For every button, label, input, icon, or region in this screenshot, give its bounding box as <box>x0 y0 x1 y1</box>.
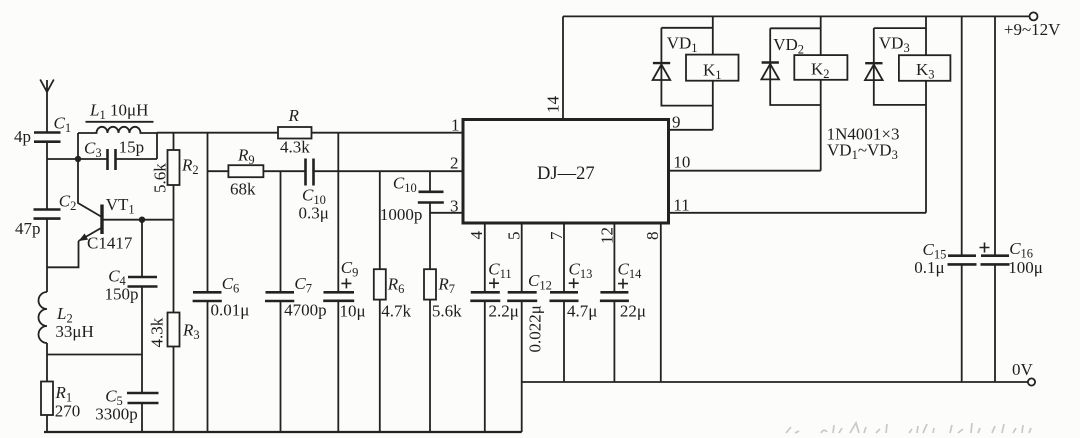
svg-text:C1417: C1417 <box>87 234 133 253</box>
node A (tank tap) <box>47 158 78 160</box>
svg-text:3: 3 <box>450 197 459 216</box>
svg-text:33μH: 33μH <box>55 322 93 341</box>
svg-text:10: 10 <box>673 153 690 172</box>
svg-text:R9: R9 <box>237 146 255 168</box>
svg-text:R2: R2 <box>181 156 199 178</box>
wire emitter net to C5 column <box>47 354 142 356</box>
relay K2 group wiring <box>770 16 821 170</box>
L1 label underline <box>86 121 154 123</box>
op-amp U1 DJ-27 IC box <box>463 120 669 224</box>
svg-text:0V: 0V <box>1012 360 1034 379</box>
svg-text:5.6k: 5.6k <box>151 163 170 193</box>
capacitor C5 <box>127 393 159 432</box>
wire pin2 net <box>208 170 464 172</box>
wire bottom ground rail <box>44 431 522 433</box>
capacitor C1 <box>34 133 61 142</box>
wire pin3 <box>430 212 463 214</box>
svg-text:15p: 15p <box>119 138 145 157</box>
svg-text:4.7k: 4.7k <box>381 302 411 321</box>
svg-text:C1: C1 <box>54 114 72 136</box>
svg-text:8: 8 <box>643 232 662 241</box>
resistor R <box>278 127 312 139</box>
svg-text:C12: C12 <box>528 271 552 293</box>
svg-text:VT1: VT1 <box>106 195 135 217</box>
svg-text:C10: C10 <box>393 174 417 196</box>
capacitor C7 <box>265 171 294 432</box>
relay K2 <box>794 55 847 80</box>
svg-text:47p: 47p <box>15 219 41 238</box>
diode VD1 <box>653 63 671 80</box>
wire pin 4 / capacitor C11 <box>470 223 500 432</box>
resistor R3 <box>168 220 180 432</box>
svg-text:DJ—27: DJ—27 <box>537 164 595 184</box>
svg-text:0.01μ: 0.01μ <box>211 301 250 320</box>
svg-text:1000p: 1000p <box>380 205 423 224</box>
terminal 0V <box>1028 378 1035 385</box>
antenna <box>40 80 54 133</box>
svg-text:7: 7 <box>547 231 566 240</box>
wire antenna column C1 to C2 <box>46 142 48 210</box>
inductor L2 <box>39 292 48 343</box>
relay K1 <box>686 55 739 81</box>
junction dot collector/C4 <box>139 217 145 223</box>
capacitor C16 <box>980 16 1010 382</box>
svg-text:VD1~VD3: VD1~VD3 <box>827 141 898 163</box>
capacitor C15 <box>948 16 977 382</box>
relay K1 group wiring <box>661 16 712 129</box>
svg-text:5.6k: 5.6k <box>432 302 462 321</box>
svg-text:1: 1 <box>451 116 460 135</box>
svg-text:C7: C7 <box>294 274 312 296</box>
svg-text:9: 9 <box>672 113 681 132</box>
wire L2 to R1 <box>46 343 48 382</box>
svg-text:VD2: VD2 <box>773 35 804 57</box>
svg-text:C9: C9 <box>341 258 359 280</box>
wire top supply rail <box>563 15 1030 17</box>
svg-text:68k: 68k <box>230 180 256 199</box>
relay K3 <box>899 55 951 81</box>
capacitor C2 <box>34 210 61 219</box>
svg-text:14: 14 <box>544 96 563 114</box>
svg-text:4.7μ: 4.7μ <box>567 302 597 321</box>
svg-text:4p: 4p <box>14 127 31 146</box>
wire pin 12 / capacitor C14 <box>600 223 629 382</box>
svg-text:C11: C11 <box>488 260 511 282</box>
svg-text:2.2μ: 2.2μ <box>489 302 519 321</box>
wire collector <box>102 219 174 221</box>
svg-text:C2: C2 <box>59 192 77 214</box>
wire 0V rail <box>522 381 1029 383</box>
capacitor C3 <box>78 149 157 170</box>
resistor R1 <box>41 382 53 416</box>
wire top rail pin1 net <box>157 132 463 134</box>
capacitor C9 <box>323 171 354 432</box>
wire pin 10 <box>669 170 821 172</box>
svg-text:0.022μ: 0.022μ <box>526 305 545 352</box>
transistor VT1 <box>47 159 102 267</box>
tank left vertical wire <box>77 133 79 159</box>
svg-text:100μ: 100μ <box>1008 258 1043 277</box>
capacitor C10 (1000p) <box>418 171 444 269</box>
svg-text:0.3μ: 0.3μ <box>299 204 329 223</box>
capacitor C6 <box>193 133 222 432</box>
svg-text:C13: C13 <box>569 260 593 282</box>
svg-text:270: 270 <box>55 402 80 421</box>
junction dot tank corner <box>75 156 81 162</box>
relay K3 group wiring <box>874 16 926 212</box>
svg-text:VD3: VD3 <box>879 34 910 56</box>
svg-text:C3: C3 <box>84 139 102 161</box>
watermark scribble <box>786 423 1031 433</box>
svg-text:22μ: 22μ <box>620 302 646 321</box>
diode VD3 <box>865 63 883 80</box>
tank right vertical wire <box>156 133 158 159</box>
resistor R7 <box>424 269 436 432</box>
svg-text:4.3k: 4.3k <box>148 317 167 347</box>
svg-text:4700p: 4700p <box>284 301 327 320</box>
svg-text:0.1μ: 0.1μ <box>914 258 944 277</box>
svg-text:11: 11 <box>673 196 689 215</box>
resistor R9 <box>228 165 263 177</box>
wire pin 8 <box>660 223 662 382</box>
svg-text:VD1: VD1 <box>667 34 698 56</box>
svg-text:2: 2 <box>450 154 459 173</box>
svg-text:R6: R6 <box>387 275 405 297</box>
inductor L1 <box>78 127 157 133</box>
resistor R2 <box>168 133 180 220</box>
svg-text:3300p: 3300p <box>95 405 138 424</box>
svg-text:4.3k: 4.3k <box>280 138 310 157</box>
diode VD2 <box>761 63 779 80</box>
wire C2 to L2 <box>46 219 48 292</box>
svg-text:4: 4 <box>467 231 486 240</box>
wire pin 14 column <box>562 16 564 119</box>
svg-text:10μ: 10μ <box>340 302 366 321</box>
svg-text:5: 5 <box>505 232 524 241</box>
resistor R6 <box>374 171 386 432</box>
wire pin 11 <box>669 212 927 214</box>
svg-text:R: R <box>288 106 300 125</box>
capacitor C10 (0.3u) <box>306 159 314 186</box>
wire R1 to bottom rail <box>46 415 48 432</box>
svg-text:L1 10μH: L1 10μH <box>89 101 148 123</box>
svg-text:12: 12 <box>598 227 617 244</box>
svg-text:R7: R7 <box>437 275 455 297</box>
wire pin 7 / capacitor C13 <box>550 223 579 382</box>
svg-text:R3: R3 <box>182 321 200 343</box>
svg-text:C14: C14 <box>618 260 643 282</box>
wire link pin1 to pin2 net <box>337 133 339 172</box>
wire pin 5 / capacitor C12 <box>507 223 537 432</box>
svg-text:+9~12V: +9~12V <box>1004 20 1061 39</box>
svg-text:150p: 150p <box>105 285 139 304</box>
terminal +9~12V <box>1030 12 1038 20</box>
wire pin 9 <box>669 129 713 131</box>
capacitor C4 <box>128 220 158 393</box>
svg-text:C6: C6 <box>222 274 240 296</box>
